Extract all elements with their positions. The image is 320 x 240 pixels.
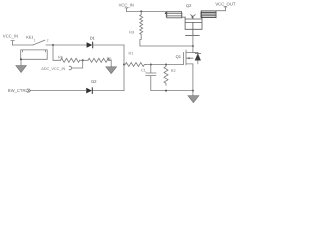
Q2 gate tee bar (186, 34, 200, 36)
svg-text:C1: C1 (141, 69, 146, 73)
svg-text:D1: D1 (90, 35, 96, 40)
wire bottom to D2 (92, 90, 124, 92)
node ADC tap (82, 59, 84, 61)
wire Q1 source down to rail (192, 64, 194, 96)
Q2 right pin box (201, 11, 216, 18)
capacitor C1 (141, 69, 146, 73)
svg-text:R2: R2 (171, 69, 176, 73)
svg-text:Q2: Q2 (186, 3, 192, 8)
node C1 tap (150, 64, 152, 66)
wire R3 bottom to Q2 gate node (140, 38, 193, 46)
node R3 top (140, 10, 142, 12)
diode D1 (90, 35, 96, 40)
wire Q2 gate down to node (192, 35, 194, 46)
port VCC_IN (left) (3, 33, 18, 38)
wire D1 to main vertical (93, 44, 124, 46)
svg-text:2: 2 (47, 39, 49, 43)
wire ADC tap down-left (72, 60, 83, 68)
resistor R6 (58, 55, 63, 59)
resistor R1 (129, 52, 134, 56)
wire Q2 right to VCC_OUT (216, 11, 225, 18)
node Q2 gate (192, 45, 194, 47)
svg-text:Q1: Q1 (176, 54, 182, 59)
wire VCC_IN to switch pin1 (13, 44, 33, 46)
wire top rail (126, 10, 166, 12)
wire D2 to BW_CTRL (31, 90, 87, 92)
switch KE1 (26, 36, 33, 40)
svg-text:VCC_OUT: VCC_OUT (215, 2, 235, 7)
wire Q2 source bend (left) (182, 13, 185, 17)
node junction at R6 tap (52, 44, 54, 46)
relay box K (21, 50, 48, 59)
ground (right, power-ground arrow) (188, 96, 199, 103)
svg-text:BW_CTRL: BW_CTRL (8, 88, 29, 93)
Q2 body stub, dot and arrow (192, 17, 194, 19)
svg-text:ADC_VCC_IN: ADC_VCC_IN (41, 67, 65, 71)
port VCC_OUT (215, 2, 235, 7)
port BW_CTRL (8, 88, 29, 93)
port ADC_VCC_IN (41, 67, 65, 71)
wire switch pin2 to D1 (46, 44, 87, 46)
wire R5 end to ground (108, 60, 111, 67)
wire ground rail bottom (151, 90, 193, 92)
Q2 left pin box (167, 12, 182, 18)
wire R1 to Q1 gate (146, 64, 184, 66)
resistor R3 (129, 31, 134, 35)
wire rail into Q2 left pins (165, 11, 168, 17)
svg-text:R3: R3 (129, 31, 134, 35)
wire Q2 drain bend (right) (201, 12, 202, 17)
Q2 gate center divider (192, 22, 194, 35)
ground (middle, power-ground arrow) (106, 67, 117, 74)
transistor Q2 (P-MOSFET cluster) (186, 3, 192, 8)
ground (left, power-ground arrow) (16, 66, 27, 73)
port VCC_IN (top) (119, 2, 134, 7)
node R1 tap (123, 64, 125, 66)
Q2 channel body ladder (185, 17, 202, 29)
transistor Q1 (N-MOSFET with body diode) (176, 54, 182, 59)
wire relay box to ground (20, 59, 22, 65)
node R2 tap (165, 64, 167, 66)
wire R6 tap down (53, 45, 61, 60)
node Q2 source pin (165, 12, 167, 14)
wire Q1 drain up to Q2 gate node (192, 46, 194, 53)
svg-text:KE1: KE1 (26, 36, 33, 40)
wire main vertical (D1/D2 node down to R1) (123, 45, 125, 91)
svg-text:VCC_IN: VCC_IN (3, 33, 18, 38)
svg-text:R1: R1 (129, 52, 134, 56)
diode D2 (91, 79, 97, 84)
resistor R5 (107, 57, 112, 61)
svg-text:D2: D2 (91, 79, 97, 84)
svg-text:1: 1 (34, 39, 36, 43)
resistor R2 (171, 69, 176, 73)
wire R6 to R5 (80, 59, 88, 61)
svg-text:VCC_IN: VCC_IN (119, 2, 134, 7)
